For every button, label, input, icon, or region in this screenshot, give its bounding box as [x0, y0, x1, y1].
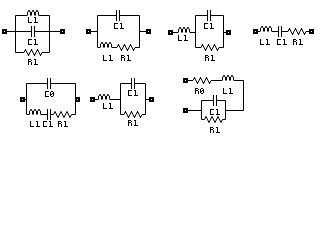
- wire bottom branch right c5: [72, 114, 76, 116]
- label C1 (circuit 6): [128, 90, 138, 96]
- label L1 (circuit 2): [103, 55, 113, 61]
- wire box bottom right c7: [223, 119, 226, 121]
- wire top branch right c1: [39, 15, 50, 17]
- capacitor C1 (circuit 6): [132, 78, 135, 89]
- inductor L1 (circuit 5): [30, 109, 41, 114]
- terminal A top (circuit 7): [183, 78, 188, 83]
- label R1 (circuit 3): [205, 55, 215, 61]
- label L1 (circuit 5): [30, 121, 40, 127]
- capacitor C0 (circuit 5): [48, 78, 51, 89]
- wire left lead c5: [25, 99, 27, 101]
- inductor L1 (circuit 4): [261, 26, 272, 31]
- label C1 (circuit 7): [210, 109, 220, 115]
- label R1 (circuit 5): [58, 121, 68, 127]
- label R1 (circuit 1): [28, 59, 38, 65]
- resistor R1 (circuit 7): [205, 117, 223, 123]
- wire bottom branch right c3: [219, 47, 224, 49]
- wire bottom link L-C c5: [41, 114, 47, 116]
- terminal right (circuit 3): [226, 30, 231, 35]
- inductor L1 (circuit 3): [179, 27, 190, 32]
- wire top mid c7: [211, 80, 222, 82]
- capacitor C1 (circuit 4): [279, 26, 282, 37]
- resistor R1 (circuit 2): [117, 45, 135, 51]
- wire top right c7: [234, 80, 244, 82]
- label R0 (circuit 7): [195, 88, 204, 94]
- wire link to box c6: [110, 99, 121, 101]
- inductor L1 (circuit 1): [28, 10, 39, 15]
- inductor L1 (circuit 7): [223, 75, 234, 80]
- circuit 2: C1 parallel with series L1+R1: [86, 10, 151, 61]
- wire box bottom left c7: [202, 119, 205, 121]
- wire top branch right c3: [211, 15, 224, 17]
- circuit 5: C0 parallel with series L1+C1+R1: [20, 78, 80, 127]
- terminal left (circuit 1): [2, 29, 7, 34]
- wire node left vertical c7: [201, 101, 203, 120]
- label L1 (circuit 7): [223, 88, 233, 94]
- wire bottom lead c7: [188, 110, 202, 112]
- inductor L1 (circuit 2): [101, 42, 112, 47]
- terminal right (circuit 4): [309, 29, 314, 34]
- wire node left vertical c6: [120, 84, 122, 115]
- resistor R1 (circuit 4): [288, 29, 306, 35]
- wire top branch left c3: [196, 15, 208, 17]
- capacitor C1 (circuit 1): [32, 26, 35, 37]
- label R1 (circuit 7): [210, 127, 220, 133]
- label C1 (circuit 4): [277, 39, 287, 45]
- wire bottom branch left c5: [27, 114, 30, 116]
- wire top branch left c2: [98, 15, 117, 17]
- resistor R1 (circuit 3): [201, 45, 219, 51]
- circuit 7: series R0+L1 into parallel C1/R1: [183, 75, 244, 133]
- wire left lead c3: [173, 32, 178, 34]
- wire right lead c3: [224, 32, 227, 34]
- wire right lead c6: [146, 99, 150, 101]
- terminal left (circuit 3): [168, 30, 173, 35]
- label C0 (circuit 5): [45, 91, 54, 97]
- wire link L-C c4: [272, 31, 278, 33]
- wire bottom link C-R c5: [51, 114, 54, 116]
- wire bottom branch right c2: [135, 47, 140, 49]
- terminal left (circuit 4): [253, 29, 258, 34]
- terminal left (circuit 5): [20, 97, 25, 102]
- wire bottom branch mid c2: [112, 47, 117, 49]
- wire right vertical down c7: [243, 81, 245, 111]
- terminal right (circuit 2): [146, 29, 151, 34]
- label L1 (circuit 1): [28, 17, 38, 23]
- wire top branch left c1: [16, 15, 28, 17]
- wire top branch left c6: [121, 83, 132, 85]
- wire node right vertical c6: [145, 84, 147, 115]
- wire top branch left c5: [27, 83, 48, 85]
- resistor R1 (circuit 6): [124, 112, 142, 118]
- label C1 (circuit 1): [28, 39, 38, 45]
- wire mid branch right c1: [35, 31, 50, 33]
- circuit 6: series L1 + parallel C1/R1: [90, 78, 154, 126]
- wire box top left c7: [202, 100, 214, 102]
- wire left lead c6: [95, 99, 98, 101]
- wire node right vertical c3: [223, 16, 225, 48]
- label C1 (circuit 3): [204, 23, 214, 29]
- wire bottom branch left c6: [121, 114, 125, 116]
- wire box top right c7: [217, 100, 226, 102]
- terminal B bottom (circuit 7): [183, 108, 188, 113]
- wire mid branch left c1: [16, 31, 32, 33]
- capacitor C1 (circuit 7): [214, 95, 217, 106]
- circuit 3: series L1 + parallel C1/R1: [168, 10, 231, 61]
- wire left lead c4: [258, 31, 260, 33]
- wire node left vertical c3: [195, 16, 197, 48]
- label R1 (circuit 6): [128, 120, 138, 126]
- label C1 (circuit 2): [114, 23, 124, 29]
- label L1 (circuit 6): [103, 103, 113, 109]
- resistor R0 (circuit 7): [193, 78, 211, 84]
- capacitor C1 (circuit 3): [208, 10, 211, 21]
- circuit 1: parallel L1/C1/R1: [2, 10, 65, 65]
- wire top branch right c2: [120, 15, 140, 17]
- terminal right (circuit 1): [60, 29, 65, 34]
- wire top branch right c5: [51, 83, 76, 85]
- wire bottom branch left c2: [98, 47, 101, 49]
- inductor L1 (circuit 6): [99, 94, 110, 99]
- wire bottom branch left c3: [196, 47, 202, 49]
- wire node left vertical c1: [15, 16, 17, 53]
- label C1 (circuit 5): [43, 121, 53, 127]
- wire node right vertical c2: [139, 16, 141, 48]
- wire node right vertical c7: [225, 101, 227, 120]
- wire link C-R c4: [282, 31, 288, 33]
- wire right lead c1: [50, 31, 61, 33]
- circuit 4: series L1+C1+R1: [253, 26, 314, 45]
- label R1 (circuit 4): [293, 39, 303, 45]
- resistor R1 (circuit 5): [54, 112, 72, 118]
- label L1 (circuit 4): [260, 39, 270, 45]
- terminal left (circuit 2): [86, 29, 91, 34]
- wire left lead c1: [7, 31, 16, 33]
- capacitor C1 (circuit 5): [48, 109, 51, 120]
- wire bottom branch right c6: [142, 114, 146, 116]
- label L1 (circuit 3): [178, 35, 188, 41]
- terminal right (circuit 6): [149, 97, 154, 102]
- wire right lead c2: [140, 31, 147, 33]
- wire left lead c2: [91, 31, 98, 33]
- label R1 (circuit 2): [121, 55, 131, 61]
- wire bottom return c7: [226, 110, 244, 112]
- wire top lead c7: [188, 80, 193, 82]
- wire node right vertical c5: [75, 84, 77, 115]
- wire link to box c3: [190, 32, 196, 34]
- wire right lead c4: [306, 31, 309, 33]
- wire top branch right c6: [135, 83, 146, 85]
- terminal left (circuit 6): [90, 97, 95, 102]
- resistor R1 (circuit 1): [24, 50, 42, 56]
- capacitor C1 (circuit 2): [117, 10, 120, 21]
- wire bottom branch left c1: [16, 52, 25, 54]
- terminal right (circuit 5): [75, 97, 80, 102]
- wire bottom branch right c1: [42, 52, 50, 54]
- wire node left vertical c5: [26, 84, 28, 115]
- wire node right vertical c1: [49, 16, 51, 53]
- wire node left vertical c2: [97, 16, 99, 48]
